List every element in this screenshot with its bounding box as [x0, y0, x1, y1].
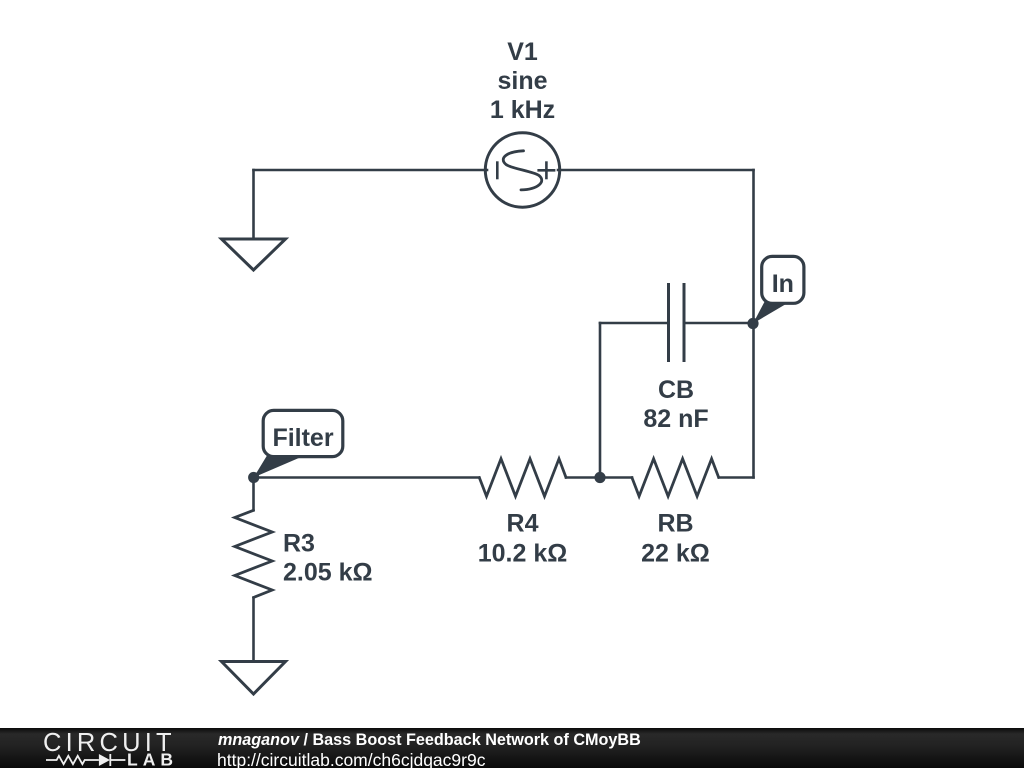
label V1 sine 1 kHz	[490, 38, 555, 124]
svg-text:10.2 kΩ: 10.2 kΩ	[478, 539, 568, 567]
footer bar	[0, 728, 1024, 768]
wire top left vertical to ground	[252, 170, 255, 239]
junction dot node In	[747, 318, 758, 329]
CircuitLab logo	[0, 728, 200, 768]
label R4 10.2 kOhm	[478, 510, 568, 568]
node In label	[753, 256, 804, 323]
wire bottom left horizontal	[254, 476, 480, 479]
capacitor CB	[669, 283, 685, 362]
wire capacitor left lead	[600, 322, 667, 325]
wire top left horizontal	[254, 169, 488, 172]
ground bottom	[222, 662, 286, 695]
label RB 22 kOhm	[641, 510, 710, 568]
footer title	[218, 731, 641, 750]
node Filter label	[254, 410, 343, 477]
junction dot node Filter	[248, 472, 259, 483]
voltage source V1	[485, 133, 559, 207]
footer url	[217, 750, 485, 768]
svg-text:R4: R4	[507, 510, 539, 538]
svg-text:CB: CB	[658, 376, 694, 404]
svg-text:V1: V1	[507, 38, 538, 66]
svg-text:LAB: LAB	[127, 750, 178, 768]
resistor RB	[632, 459, 719, 496]
ground top left	[222, 239, 286, 270]
svg-text:In: In	[772, 270, 794, 298]
wire between R4 and RB	[566, 476, 632, 479]
svg-text:82 nF: 82 nF	[643, 405, 708, 433]
wire R3 bottom lead	[252, 598, 255, 662]
junction dot center	[594, 472, 605, 483]
wire R3 top lead	[252, 478, 255, 511]
wire right vertical	[752, 170, 755, 478]
resistor R3	[235, 510, 272, 597]
svg-text:Filter: Filter	[272, 424, 333, 452]
wire top right horizontal	[558, 169, 754, 172]
svg-text:sine: sine	[497, 67, 547, 95]
svg-text:2.05 kΩ: 2.05 kΩ	[283, 559, 373, 587]
svg-text:RB: RB	[657, 510, 693, 538]
wire left vertical from capacitor to bottom	[599, 323, 602, 478]
svg-text:R3: R3	[283, 529, 315, 557]
wire capacitor right lead	[686, 322, 754, 325]
label R3 2.05 kOhm	[283, 529, 373, 586]
svg-text:1 kHz: 1 kHz	[490, 96, 555, 124]
wire RB to right vertical	[719, 476, 754, 479]
label CB 82 nF	[643, 376, 708, 433]
svg-text:22 kΩ: 22 kΩ	[641, 539, 710, 567]
resistor R4	[479, 459, 566, 496]
